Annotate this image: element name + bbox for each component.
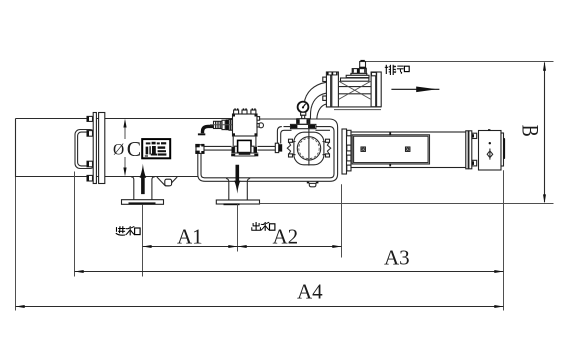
svg-text:A2: A2	[273, 225, 299, 249]
inlet center extension line	[142, 205, 144, 277]
valve actuator	[346, 60, 369, 78]
clamp centerline	[308, 119, 310, 166]
dimension phi-C text	[113, 137, 141, 161]
filter body inner outline	[201, 127, 334, 178]
pipe elbow fitting at body	[195, 144, 204, 154]
svg-text:A3: A3	[384, 246, 410, 270]
gauge mount block	[296, 119, 310, 125]
drain outlet flow arrow	[391, 87, 439, 93]
tube panel	[352, 133, 429, 167]
flush pipe left segment	[204, 146, 232, 150]
flush pipe riser	[277, 127, 330, 144]
outlet flange plate	[216, 200, 259, 205]
flange bolt 1	[87, 116, 93, 121]
outlet center extension line	[237, 204, 239, 251]
nameplate	[142, 139, 170, 158]
control box cable glands	[234, 108, 256, 114]
vessel top line	[16, 118, 331, 121]
svg-text:C: C	[127, 137, 141, 161]
A2 dimension line	[238, 245, 342, 248]
flange bolt 4	[87, 175, 93, 181]
A1 text	[177, 225, 203, 249]
pressure gauge	[298, 102, 309, 119]
B top extension line	[366, 61, 554, 63]
motor tube	[351, 132, 466, 168]
right extension line	[503, 170, 505, 310]
flush pipe right segment	[258, 146, 276, 150]
A4 text	[297, 280, 323, 304]
vessel bottom line	[16, 176, 199, 178]
A4 dimension line	[16, 305, 504, 308]
drain elbow pipe	[304, 82, 326, 119]
svg-text:A1: A1	[177, 225, 203, 249]
handle loop on left flange	[75, 130, 96, 169]
pipe union fitting	[275, 143, 282, 152]
sight glass cover	[294, 132, 324, 165]
svg-text:A4: A4	[297, 280, 323, 304]
left flange plates	[93, 113, 105, 184]
drain pocket	[157, 177, 177, 186]
valve mounting bracket	[233, 136, 256, 148]
clamp lug left	[287, 139, 295, 157]
drain boss	[307, 182, 319, 187]
control box side port	[257, 117, 264, 128]
tube end flange	[466, 131, 477, 169]
flange bolt 2	[87, 131, 93, 137]
vessel left end cap line	[15, 119, 17, 178]
A3 text	[384, 246, 410, 270]
inlet nozzle pipe	[131, 177, 155, 200]
inlet flange plate	[122, 200, 164, 205]
left extension line	[15, 177, 17, 311]
filter body outer outline	[198, 119, 338, 181]
valve body	[326, 78, 381, 110]
valve right flange	[371, 72, 381, 107]
gauge base plate	[291, 124, 316, 128]
A1 dimension line	[143, 245, 238, 248]
outlet nozzle pipe	[226, 179, 250, 201]
A2 text	[273, 225, 299, 249]
svg-text:Ø: Ø	[113, 142, 124, 159]
motor coupling stack	[210, 119, 240, 130]
clamp lug right	[323, 139, 331, 157]
body-to-tube flange	[342, 129, 351, 174]
motor end box	[479, 129, 506, 170]
outlet flow arrow	[234, 165, 240, 194]
inlet flow arrow	[140, 164, 147, 195]
valve left flange	[323, 72, 339, 107]
label jin-shui-kou (inlet)	[116, 226, 140, 235]
control box	[233, 114, 258, 136]
label chu-shui-kou (outlet)	[252, 222, 275, 231]
solenoid valve body	[232, 140, 258, 153]
dimension phi-C line	[123, 119, 126, 177]
A3 dimension line	[75, 270, 504, 273]
solenoid base plate	[231, 153, 258, 156]
B bottom extension line	[260, 203, 554, 205]
handle extension line for A3	[74, 172, 76, 277]
A2 right extension line	[341, 184, 343, 257]
flange bolt 3	[87, 161, 93, 167]
svg-text:B: B	[518, 125, 543, 137]
conduit elbow	[198, 126, 222, 135]
label pai-wu-kou (drain)	[385, 65, 409, 75]
B dimension text	[518, 125, 543, 137]
B dimension line	[543, 62, 546, 204]
